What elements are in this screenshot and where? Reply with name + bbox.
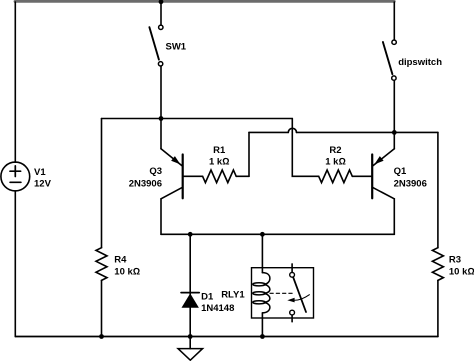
label R4 10k — [114, 255, 140, 278]
svg-text:10 kΩ: 10 kΩ — [114, 267, 140, 278]
wire R2 to Q1 base — [352, 175, 371, 177]
label SW1 — [166, 42, 187, 53]
wire R3 to ground rail — [437, 280, 439, 336]
wire top supply rail — [15, 0, 394, 3]
label V1 12V — [34, 167, 52, 190]
svg-text:1 kΩ: 1 kΩ — [325, 157, 346, 168]
node junction D1/ground rail — [188, 334, 193, 339]
svg-text:2N3906: 2N3906 — [129, 179, 162, 190]
relay RLY1 — [252, 234, 314, 336]
svg-text:V1: V1 — [34, 167, 46, 178]
svg-text:Q1: Q1 — [394, 166, 407, 177]
transistor Q1 2N3906 — [372, 132, 394, 234]
svg-text:RLY1: RLY1 — [221, 289, 245, 300]
wire left supply vertical above V1 — [14, 2, 16, 162]
wire D1 vertical through diode to ground symbol — [189, 234, 191, 348]
svg-text:R4: R4 — [114, 255, 127, 266]
wire collector rail horizontal — [161, 233, 394, 235]
label dipswitch — [398, 57, 442, 68]
svg-text:Q3: Q3 — [149, 166, 162, 177]
node junction relay coil/collector rail — [260, 232, 265, 237]
node junction dipswitch/Q1-emitter/wire — [392, 130, 397, 135]
wire right branch R3 vertical — [437, 132, 439, 247]
wire R4 to ground rail — [101, 280, 103, 336]
svg-text:R1: R1 — [213, 145, 226, 156]
switch dipswitch — [383, 2, 396, 132]
wire Q3 emitter rail horizontal — [102, 118, 293, 120]
switch SW1 — [149, 2, 163, 66]
svg-text:D1: D1 — [201, 292, 214, 303]
svg-text:2N3906: 2N3906 — [394, 179, 427, 190]
label Q1 2N3906 — [394, 166, 427, 190]
node junction SW1/Q3-emitter/rail — [159, 116, 164, 121]
label D1 1N4148 — [201, 292, 234, 315]
wire bottom ground rail — [15, 336, 438, 338]
label R2 1k — [325, 145, 346, 168]
wire R4 branch top — [101, 119, 103, 248]
svg-text:12V: 12V — [34, 178, 52, 189]
node junction D1/collector rail — [188, 232, 193, 237]
svg-text:R2: R2 — [329, 145, 341, 156]
label R1 1k — [209, 145, 230, 168]
wire R2 branch from emitter rail — [292, 119, 318, 177]
svg-text:SW1: SW1 — [166, 42, 187, 53]
resistor R4 — [96, 248, 107, 281]
resistor R2 — [319, 170, 353, 183]
svg-text:dipswitch: dipswitch — [398, 57, 442, 68]
node junction R4/ground rail — [99, 334, 104, 339]
label R3 10k — [449, 255, 474, 278]
ground symbol — [178, 349, 203, 361]
resistor R1 with leads — [184, 132, 249, 182]
wire cross-coupling horizontal with hop — [249, 128, 438, 132]
svg-text:1N4148: 1N4148 — [201, 303, 234, 314]
svg-text:10 kΩ: 10 kΩ — [449, 267, 474, 278]
label Q3 2N3906 — [129, 166, 162, 190]
wire left supply vertical below V1 — [14, 191, 16, 337]
diode D1 1N4148 — [181, 293, 199, 308]
transistor Q3 2N3906 — [161, 119, 183, 235]
wire SW1 to emitter node — [160, 66, 162, 118]
svg-text:1 kΩ: 1 kΩ — [209, 157, 230, 168]
resistor R3 — [432, 248, 443, 281]
node junction top rail/SW1 — [159, 0, 164, 4]
voltage source V1 — [1, 162, 30, 191]
node junction relay coil/ground rail — [260, 334, 265, 339]
label RLY1 — [221, 289, 245, 300]
svg-text:R3: R3 — [449, 255, 461, 266]
